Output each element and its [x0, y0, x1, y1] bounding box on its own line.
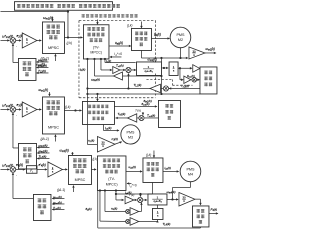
svg-text:ωm4(k): ωm4(k) [166, 190, 175, 195]
svg-text:π: π [183, 199, 185, 203]
wire observer output y(k) [209, 212, 218, 214]
sum junction theta transfer [192, 77, 197, 82]
svg-text:T′(k): T′(k) [128, 193, 134, 197]
svg-text:(j,k): (j,k) [127, 23, 133, 27]
second feedback tri ch3 [126, 219, 130, 223]
block TV2 merged module ch2 [82, 101, 114, 124]
T' stub ch2 [142, 112, 144, 115]
wire PMSM2 down to position line [179, 48, 181, 58]
svg-text:ωm2(k): ωm2(k) [38, 63, 47, 68]
wire MPSC3 to TV3 [91, 168, 95, 170]
load torque path ch1 [169, 87, 200, 89]
wire y106 into knit model - theta from TV2 [114, 105, 156, 107]
svg-text:Te3(k): Te3(k) [117, 112, 125, 117]
wire MPSC2 to TV2 [64, 109, 81, 111]
wire amp to MPSC3 [62, 168, 67, 170]
svg-text:J₂s+B₂: J₂s+B₂ [144, 69, 153, 73]
svg-text:-: - [16, 45, 17, 49]
svg-text:-: - [16, 174, 17, 178]
wire PMSM4 position feedback [189, 182, 191, 188]
svg-text:MPSC: MPSC [48, 46, 59, 50]
summing junction ch1 [10, 38, 16, 44]
op-amp ch3 [48, 162, 63, 177]
svg-text:*=0: *=0 [117, 52, 122, 56]
wire TV2 to PMSM3 [102, 124, 104, 130]
svg-text:F₁: F₁ [30, 169, 33, 173]
dashed box three-vector MPCC module ch1 [79, 19, 156, 21]
svg-text:(jΔ-1): (jΔ-1) [57, 188, 65, 192]
block tension observer [192, 206, 209, 227]
wire control box bottom down [140, 50, 142, 58]
title banner box [14, 2, 112, 11]
vertical feedback wire x161 [160, 58, 162, 62]
svg-text:(j,k): (j,k) [65, 105, 71, 109]
svg-text:T′(k): T′(k) [135, 108, 141, 112]
compensator 1 deviation-compensator box [18, 58, 36, 80]
svg-text:ωm2(k): ωm2(k) [91, 77, 100, 82]
dashed theta coupling wire [146, 78, 172, 80]
svg-text:Te2(k): Te2(k) [116, 63, 124, 68]
speed feedback tri ch1 (tip left) [123, 75, 161, 77]
wire n1 into rpm tri ch2 [87, 143, 97, 145]
bottom bus wire y93.5 ch1 [87, 93, 200, 95]
tap x104 to i_s wire [104, 59, 106, 63]
wire stub into control box top [140, 21, 142, 27]
svg-text:ωm3(k): ωm3(k) [38, 149, 47, 154]
comp2 input stubs [37, 146, 49, 148]
wire control to PMSM2 [151, 37, 169, 39]
svg-text:π: π [102, 144, 104, 148]
svg-text:ωm1(k): ωm1(k) [205, 47, 214, 52]
svg-text:MPSC: MPSC [48, 125, 59, 129]
wire sum to amp ch1 [16, 39, 21, 41]
svg-text:F4(k): F4(k) [210, 207, 217, 212]
torque wire from knit model to TV2 [144, 117, 158, 119]
svg-text:PMS: PMS [176, 33, 185, 37]
svg-text:θm3(k): θm3(k) [141, 102, 149, 107]
block filament transfer model [200, 67, 217, 94]
svg-text:MPSC: MPSC [75, 178, 86, 182]
wire stub into MPSC1 top [51, 17, 53, 21]
svg-text:*=0: *=0 [132, 183, 137, 187]
block control-feedback ch3 [143, 158, 163, 183]
motor PMSM4 circle [180, 161, 201, 182]
summing junction ch3 [10, 167, 16, 173]
svg-text:M3: M3 [128, 135, 133, 139]
svg-text:π: π [193, 53, 195, 57]
wire ctrl3 to PMSM4 [163, 170, 179, 172]
integrator 1/s box ch1 [169, 62, 178, 76]
rpm tri ch2 [97, 136, 115, 152]
op-amp speed gain ch2 [22, 102, 37, 117]
wire sum to JsB [131, 69, 136, 71]
theta branch to transfer model [179, 68, 181, 80]
compensator 3 [33, 194, 51, 220]
comp1 input stubs [37, 61, 49, 63]
block 1/(J s+B) ch1 [136, 62, 161, 76]
wire tri2 tip into motor [115, 142, 122, 144]
svg-text:MPCC): MPCC) [106, 182, 118, 186]
svg-text:Tm1(k): Tm1(k) [181, 84, 189, 89]
summing junction mech model ch1 [126, 67, 131, 72]
comp3 input stubs [52, 197, 64, 199]
filter box ch3 [26, 166, 37, 174]
block MPSC1 model-predictive speed control [42, 22, 64, 54]
wire n1 output [205, 52, 216, 54]
torque path ch1: tap to gain tri [101, 69, 112, 71]
svg-text:ωm1(k): ωm1(k) [38, 58, 47, 63]
wire comp2 to sum ch2 [13, 147, 18, 149]
wire comp1 output to sum ch1 [13, 61, 18, 63]
wire JsB out ch3 [167, 198, 173, 200]
wire ch1 input [0, 39, 9, 41]
gain tri Te ch3 [125, 196, 134, 204]
block TV3 TV-MPCC ch3 [97, 156, 126, 191]
block TV-MPCC1 three-vector predictive current control [83, 25, 109, 59]
svg-text:n3(k): n3(k) [111, 137, 118, 142]
svg-text:TL3(k): TL3(k) [38, 154, 46, 159]
wire MPSC1 to TV-MPCC1 [64, 36, 82, 38]
motor PMSM3 circle [121, 125, 140, 144]
block control-feedback module ch1 [131, 28, 151, 50]
sum junction TL ch1 [163, 86, 168, 91]
svg-text:M4: M4 [188, 172, 193, 176]
wires under TV1: taps [86, 59, 88, 145]
gain tri TL ch1 (tip left) [150, 84, 161, 92]
svg-text:MPCC): MPCC) [90, 50, 101, 54]
wire JsB out to integrator [161, 67, 167, 69]
svg-text:ωm1(k): ωm1(k) [59, 148, 68, 153]
summing junction ch2 [10, 107, 16, 113]
block 1/(J4 s+B4) ch3 [148, 194, 167, 205]
block MPSC3 [68, 155, 91, 184]
svg-text:PMS: PMS [127, 130, 135, 134]
wire sum to JsB ch3 [143, 199, 147, 201]
svg-text:TL2(k): TL2(k) [38, 69, 46, 74]
svg-text:uab(k): uab(k) [115, 41, 123, 46]
wire sum to F box [16, 168, 25, 170]
wire comp3 to sum ch3 [13, 197, 34, 199]
wire into MPSC2 bottom [54, 135, 56, 141]
wire TV1 to control box [109, 45, 131, 47]
svg-text:(j,k): (j,k) [66, 41, 72, 45]
svg-text:-: - [16, 114, 17, 118]
wire sum to amp ch2 [16, 108, 21, 110]
master speed bus wire [0, 11, 68, 13]
wire integrator out to transfer model [178, 67, 192, 69]
bottom bus ch3 [97, 190, 99, 228]
svg-text:θm1(k): θm1(k) [187, 74, 195, 79]
op-amp speed-loop gain ch1 [22, 33, 37, 48]
wire TV3 to ctrl3 [126, 170, 142, 172]
wire ch3 input [0, 168, 9, 170]
svg-text:(j,k): (j,k) [92, 157, 97, 161]
svg-text:PMS: PMS [186, 167, 195, 171]
wire amp to MPSC2 [37, 108, 41, 110]
svg-text:TL4(k): TL4(k) [162, 222, 170, 227]
svg-text:(j,k): (j,k) [146, 153, 151, 157]
gain triangle i to Te ch1 [113, 66, 120, 73]
svg-text:θ4(k): θ4(k) [85, 207, 91, 212]
svg-text:n3(k): n3(k) [111, 206, 117, 211]
integrator 1/s box ch3 [152, 208, 163, 219]
rpm tri ch3 [179, 192, 195, 206]
svg-text:ωm1(k): ωm1(k) [38, 143, 47, 148]
wire F to amp ch3 [37, 168, 47, 170]
wire into TV2 top from bus [96, 94, 98, 101]
dashed box label [82, 14, 138, 18]
sum junction mech ch3 [138, 197, 143, 202]
sum junction T ch2 [139, 115, 144, 120]
wire ch2 input [0, 108, 9, 110]
svg-text:n1(k): n1(k) [88, 138, 94, 143]
wire into MPSC3 bottom [72, 186, 74, 192]
feedback tap verticals ch3 [99, 189, 101, 191]
svg-text:(TV-: (TV- [93, 45, 100, 49]
svg-text:ωm2(k): ωm2(k) [147, 57, 156, 62]
wire into MPSC1 bottom [54, 54, 56, 61]
svg-text:M2: M2 [178, 38, 183, 42]
svg-text:(TV-: (TV- [108, 177, 116, 181]
wire tri3 to tension observer [195, 198, 201, 200]
svg-text:uab(k): uab(k) [128, 165, 136, 170]
wire into TV1 top [96, 19, 98, 24]
T' stub into sum ch3 [139, 194, 141, 196]
ch3 mech: wire from ctrl3 bottom [151, 182, 153, 194]
wire amp to MPSC1 [37, 39, 41, 41]
block MPSC2 [42, 97, 64, 134]
gain tri ch2 tip-left [137, 117, 139, 119]
svg-text:TL1(k): TL1(k) [133, 83, 141, 88]
svg-text:(jΔ-1): (jΔ-1) [40, 137, 49, 141]
compensator 2 [18, 143, 36, 169]
svg-text:J₄s+B₄: J₄s+B₄ [153, 199, 162, 203]
motor PMSM2 circle ch1 [170, 27, 191, 48]
rad-to-rpm converter 30/pi ch1 [189, 47, 205, 59]
svg-text:is(k): is(k) [106, 59, 111, 64]
gain tri into transfer model top [193, 65, 200, 73]
wire position line y57.5 [141, 57, 187, 59]
svg-text:Tm3(k): Tm3(k) [147, 113, 155, 118]
block knitting machine model [158, 100, 180, 127]
svg-text:e′4(k): e′4(k) [38, 163, 45, 168]
